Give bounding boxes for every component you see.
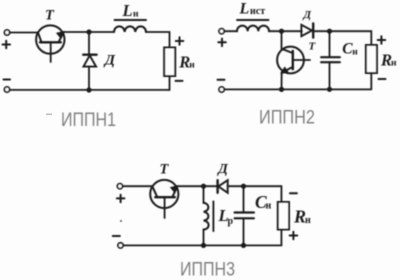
resistor R2 <box>366 45 377 73</box>
node top-right 2 <box>327 29 332 34</box>
svg-text:T: T <box>45 8 55 24</box>
inductor L1 <box>114 26 146 32</box>
inductor L2 <box>237 26 269 32</box>
bottom rail 2 <box>225 88 371 90</box>
capacitor C2 <box>321 31 340 89</box>
svg-text:Д: Д <box>216 162 228 177</box>
svg-text:ИППН2: ИППН2 <box>259 107 315 129</box>
svg-text:ИППН3: ИППН3 <box>180 259 235 280</box>
node bottom C2 <box>327 87 332 92</box>
svg-text:Д: Д <box>103 53 116 69</box>
vinculum L2 <box>237 19 269 21</box>
artifact dash 1 <box>46 114 52 116</box>
diode D1 <box>83 32 96 90</box>
minus output 2 <box>379 78 386 80</box>
plus output 2 <box>378 36 386 44</box>
wire T3 to node <box>177 185 218 187</box>
svg-text:н: н <box>391 59 397 69</box>
node top-left 2 <box>279 29 284 34</box>
minus input 1 <box>4 79 11 81</box>
resistor R3 <box>278 202 289 230</box>
terminal top-left 2 <box>219 29 224 34</box>
resistor R1 <box>164 48 175 77</box>
svg-text:н: н <box>133 10 139 20</box>
bottom rail 1 <box>10 89 169 91</box>
terminal bottom-left 1 <box>4 87 9 92</box>
wire R2 down <box>370 73 372 89</box>
node bottom T2 <box>279 87 284 92</box>
wire R1 to bottom rail <box>169 76 171 90</box>
wire node3 to R3 <box>244 186 282 202</box>
wire node2 to R2 <box>330 31 372 45</box>
terminal top-left 1 <box>4 30 9 35</box>
plus output 1 <box>176 37 184 45</box>
node top-right 3 <box>241 184 246 189</box>
svg-text:ИППН1: ИППН1 <box>61 110 116 131</box>
node bottom C3 <box>241 243 246 248</box>
diode D3 (points left) <box>218 180 244 193</box>
svg-text:T: T <box>160 162 170 178</box>
transistor T3 <box>150 180 178 218</box>
vinculum L1 <box>115 19 147 21</box>
svg-text:Д: Д <box>303 9 312 21</box>
minus input 2 <box>218 79 225 81</box>
node top 1 <box>86 29 91 34</box>
plus input 1 <box>3 41 11 49</box>
minus output 1 <box>176 80 183 82</box>
wire input 2 <box>225 30 237 32</box>
wire input top 1 <box>10 32 38 34</box>
transistor T1 <box>36 25 64 62</box>
diode D2 <box>301 23 329 37</box>
svg-text:н: н <box>352 48 358 58</box>
svg-text:н: н <box>266 200 272 211</box>
minus input 3 <box>113 235 120 237</box>
svg-text:р: р <box>228 216 234 227</box>
transistor T2 <box>277 31 310 89</box>
core line L3 <box>212 202 214 232</box>
terminal bottom-left 2 <box>219 87 224 92</box>
terminal top-left 3 <box>117 184 122 189</box>
wire T1 to node <box>63 31 114 33</box>
inductor L3 vertical <box>204 186 209 245</box>
svg-text:н: н <box>305 215 311 226</box>
capacitor C3 <box>235 186 254 245</box>
speck artifact <box>120 220 122 222</box>
plus output 3 <box>290 232 298 240</box>
terminal bottom-left 3 <box>118 243 123 248</box>
node top-left 3 <box>201 184 206 189</box>
plus input 3 <box>117 195 125 203</box>
svg-text:L: L <box>239 0 250 17</box>
wire L2 to node <box>269 30 302 32</box>
node bottom L3 <box>201 243 206 248</box>
wire input top 3 <box>123 185 152 187</box>
svg-text:T: T <box>309 40 317 52</box>
wire L1 to corner <box>146 32 170 48</box>
bottom rail 3 <box>124 244 282 246</box>
svg-text:н: н <box>189 61 195 71</box>
svg-text:ист: ист <box>250 6 265 17</box>
svg-text:L: L <box>122 1 133 20</box>
minus output 3 <box>290 192 297 194</box>
wire R3 down <box>280 230 282 246</box>
node bottom 1 <box>86 87 91 92</box>
plus input 2 <box>218 39 226 47</box>
